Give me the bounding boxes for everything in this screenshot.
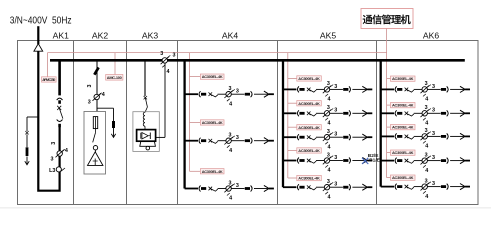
svg-text:AC300EL-4K: AC300EL-4K	[392, 125, 414, 130]
svg-text:4: 4	[167, 69, 170, 75]
svg-text:4: 4	[102, 92, 105, 98]
svg-text:AK2: AK2	[92, 31, 108, 41]
svg-text:AC300EL-4K: AC300EL-4K	[298, 148, 320, 153]
svg-text:AK5: AK5	[320, 31, 336, 41]
svg-text:3/N~400V 50Hz: 3/N~400V 50Hz	[10, 16, 72, 27]
svg-text:3: 3	[51, 142, 57, 145]
svg-text:3: 3	[87, 85, 93, 88]
svg-text:3: 3	[51, 157, 54, 163]
svg-text:L3: L3	[49, 168, 55, 174]
svg-text:3: 3	[88, 100, 91, 106]
svg-text:AC300EL-4K: AC300EL-4K	[298, 76, 320, 81]
svg-text:AC300EL-4K: AC300EL-4K	[298, 176, 320, 181]
svg-text:AK3: AK3	[142, 31, 158, 41]
svg-text:AMC-100: AMC-100	[107, 75, 122, 80]
svg-text:AC300EL-4K: AC300EL-4K	[298, 101, 320, 106]
svg-text:AC300EL-4K: AC300EL-4K	[202, 74, 223, 79]
svg-text:AC300EL-4K: AC300EL-4K	[392, 103, 414, 108]
svg-text:APMC750: APMC750	[42, 77, 55, 82]
svg-text:AC300EL-4K: AC300EL-4K	[298, 125, 320, 130]
svg-text:AC300EL-4K: AC300EL-4K	[392, 175, 414, 180]
svg-text:3: 3	[160, 51, 163, 57]
svg-text:4: 4	[65, 148, 68, 154]
svg-text:3: 3	[173, 52, 176, 58]
svg-text:B1/E: B1/E	[369, 157, 380, 163]
svg-text:AK4: AK4	[222, 31, 238, 41]
svg-text:AK1: AK1	[53, 31, 69, 41]
svg-text:AC300EL-4K: AC300EL-4K	[202, 169, 223, 174]
svg-text:AC300EL-4K: AC300EL-4K	[392, 150, 414, 155]
svg-text:AC300EL-4K: AC300EL-4K	[392, 76, 414, 81]
svg-text:AK6: AK6	[423, 31, 439, 41]
svg-text:AC300EL-4K: AC300EL-4K	[202, 120, 223, 125]
